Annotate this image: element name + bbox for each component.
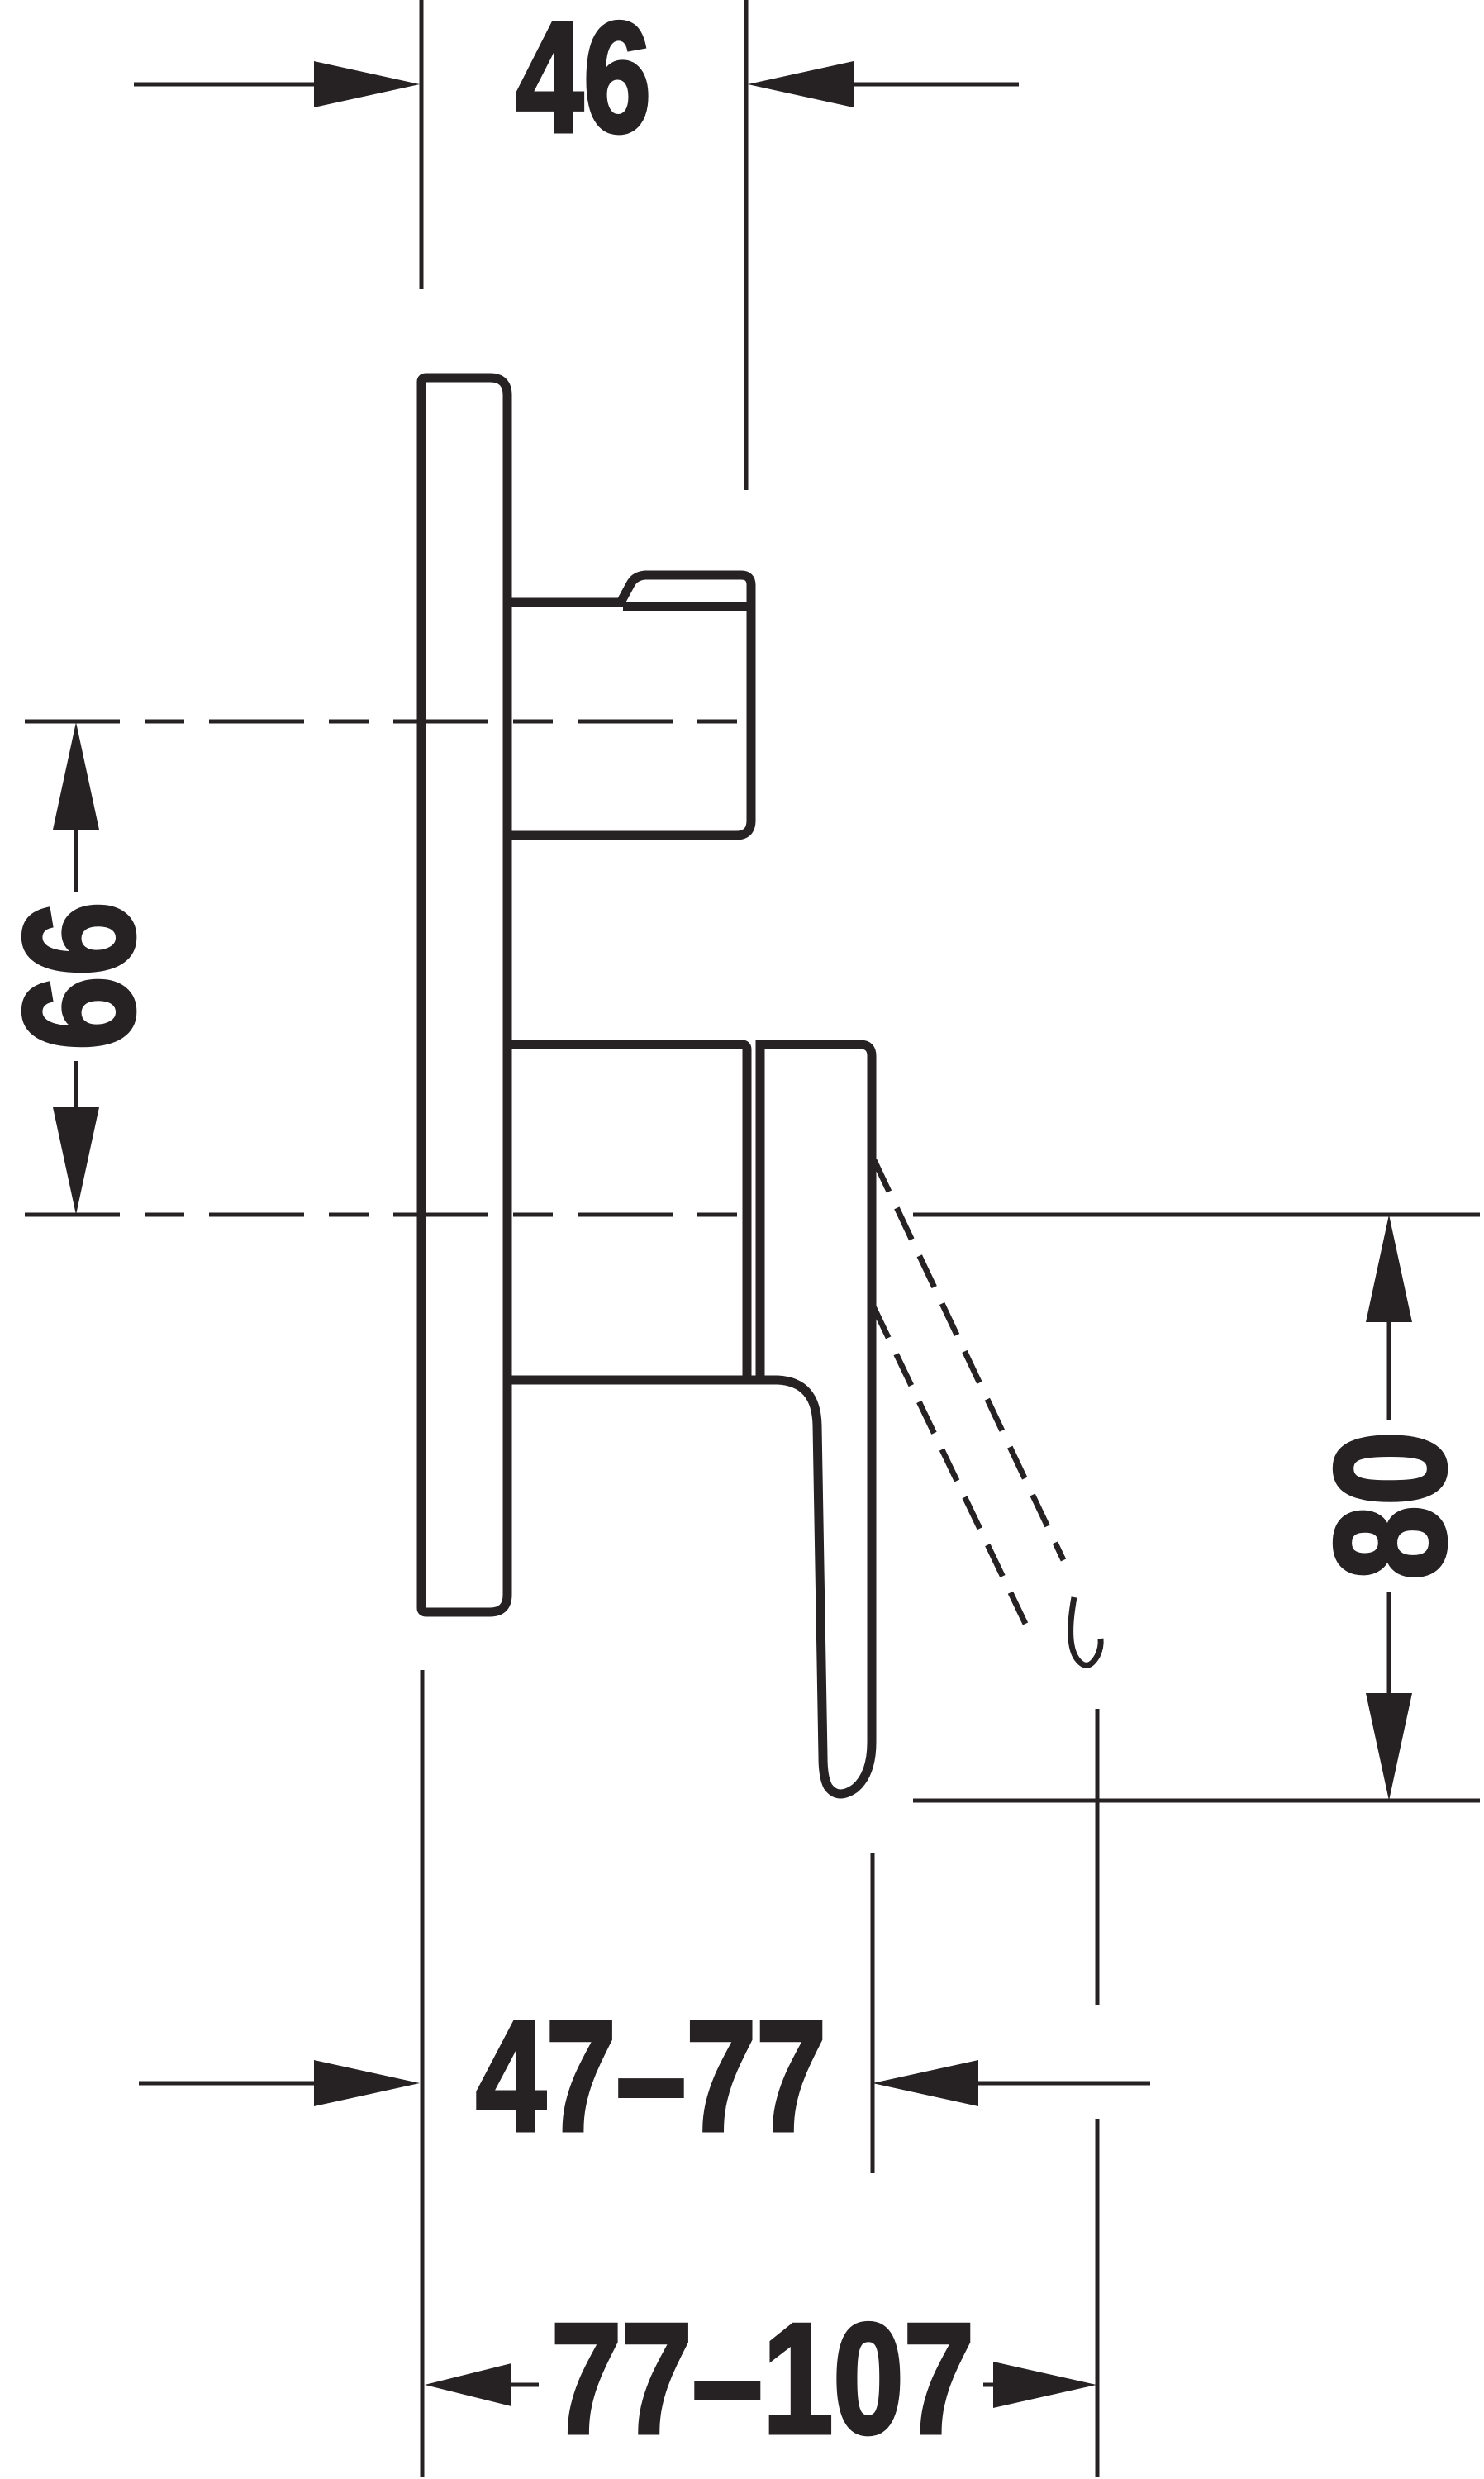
extension line open lever tip upper (x=1328) (1096, 1709, 1100, 2005)
centerline lower (handle axis, y=1470) (25, 1213, 742, 1217)
svg-text:80: 80 (1303, 1431, 1478, 1580)
diverter knob lip bottom line (623, 602, 749, 611)
dimension 66 down arrowhead (53, 1107, 99, 1215)
dimension 47-77 right arrow tail (977, 2082, 1150, 2086)
centerline lower right solid extension (80 top reference) (913, 1213, 1480, 1217)
dimension 46 left arrow tail (134, 83, 316, 87)
svg-text:77–107: 77–107 (551, 2291, 974, 2467)
dimension 80 down arrowhead (1366, 1693, 1412, 1801)
dimension 80 lower shaft (1387, 1592, 1391, 1695)
diverter knob top line (507, 598, 625, 607)
bottom tick line (80 bottom reference, y=2179) (913, 1799, 1480, 1803)
lever handle open position dashed outer edge (874, 1160, 1063, 1560)
dimension 66 lower shaft (74, 1061, 78, 1109)
extension line bottom left (x=511) (421, 1670, 425, 2477)
extension line open lever tip lower (x=1328) (1096, 2119, 1100, 2477)
dimension 77-107 left arrow tail (510, 2383, 539, 2387)
dimension 77-107 right arrowhead (993, 2362, 1096, 2408)
svg-text:66: 66 (0, 902, 167, 1050)
dimension 77-107 left arrowhead (425, 2363, 511, 2406)
dimension 80 up arrowhead (1366, 1215, 1412, 1322)
dimension 80 upper shaft (1387, 1320, 1391, 1420)
dimension 77-107 right arrow tail (983, 2383, 996, 2387)
svg-text:47–77: 47–77 (476, 1989, 826, 2164)
dimension 47-77 left arrowhead (314, 2060, 420, 2106)
dimension 66 up arrowhead (53, 722, 99, 830)
centerline upper (knob axis, y=873) (25, 720, 760, 724)
mixer body (cartridge housing) (507, 1044, 747, 1380)
extension line closed lever tip (x=1056) (871, 1853, 875, 2173)
dimension 47-77 left arrow tail (139, 2082, 316, 2086)
diverter knob outline with grip lip (507, 575, 751, 835)
extension line right (knob face, x=903) (744, 0, 749, 490)
lever handle closed (base plate + lever) (507, 1044, 872, 1794)
dimension 46 left arrowhead (314, 61, 420, 107)
dimension 66 upper shaft (74, 828, 78, 892)
dimension 47-77 right arrowhead (873, 2060, 978, 2106)
dimension 46 right arrow tail (852, 83, 1019, 87)
wall plate (escutcheon side view) (421, 378, 507, 1612)
extension line left (wall face, x=510) (420, 0, 424, 289)
svg-text:46: 46 (516, 0, 651, 165)
lever handle open position dashed inner edge (873, 1306, 1025, 1624)
lever handle open position dashed tip (1071, 1597, 1101, 1665)
dimension 46 right arrowhead (748, 61, 854, 107)
